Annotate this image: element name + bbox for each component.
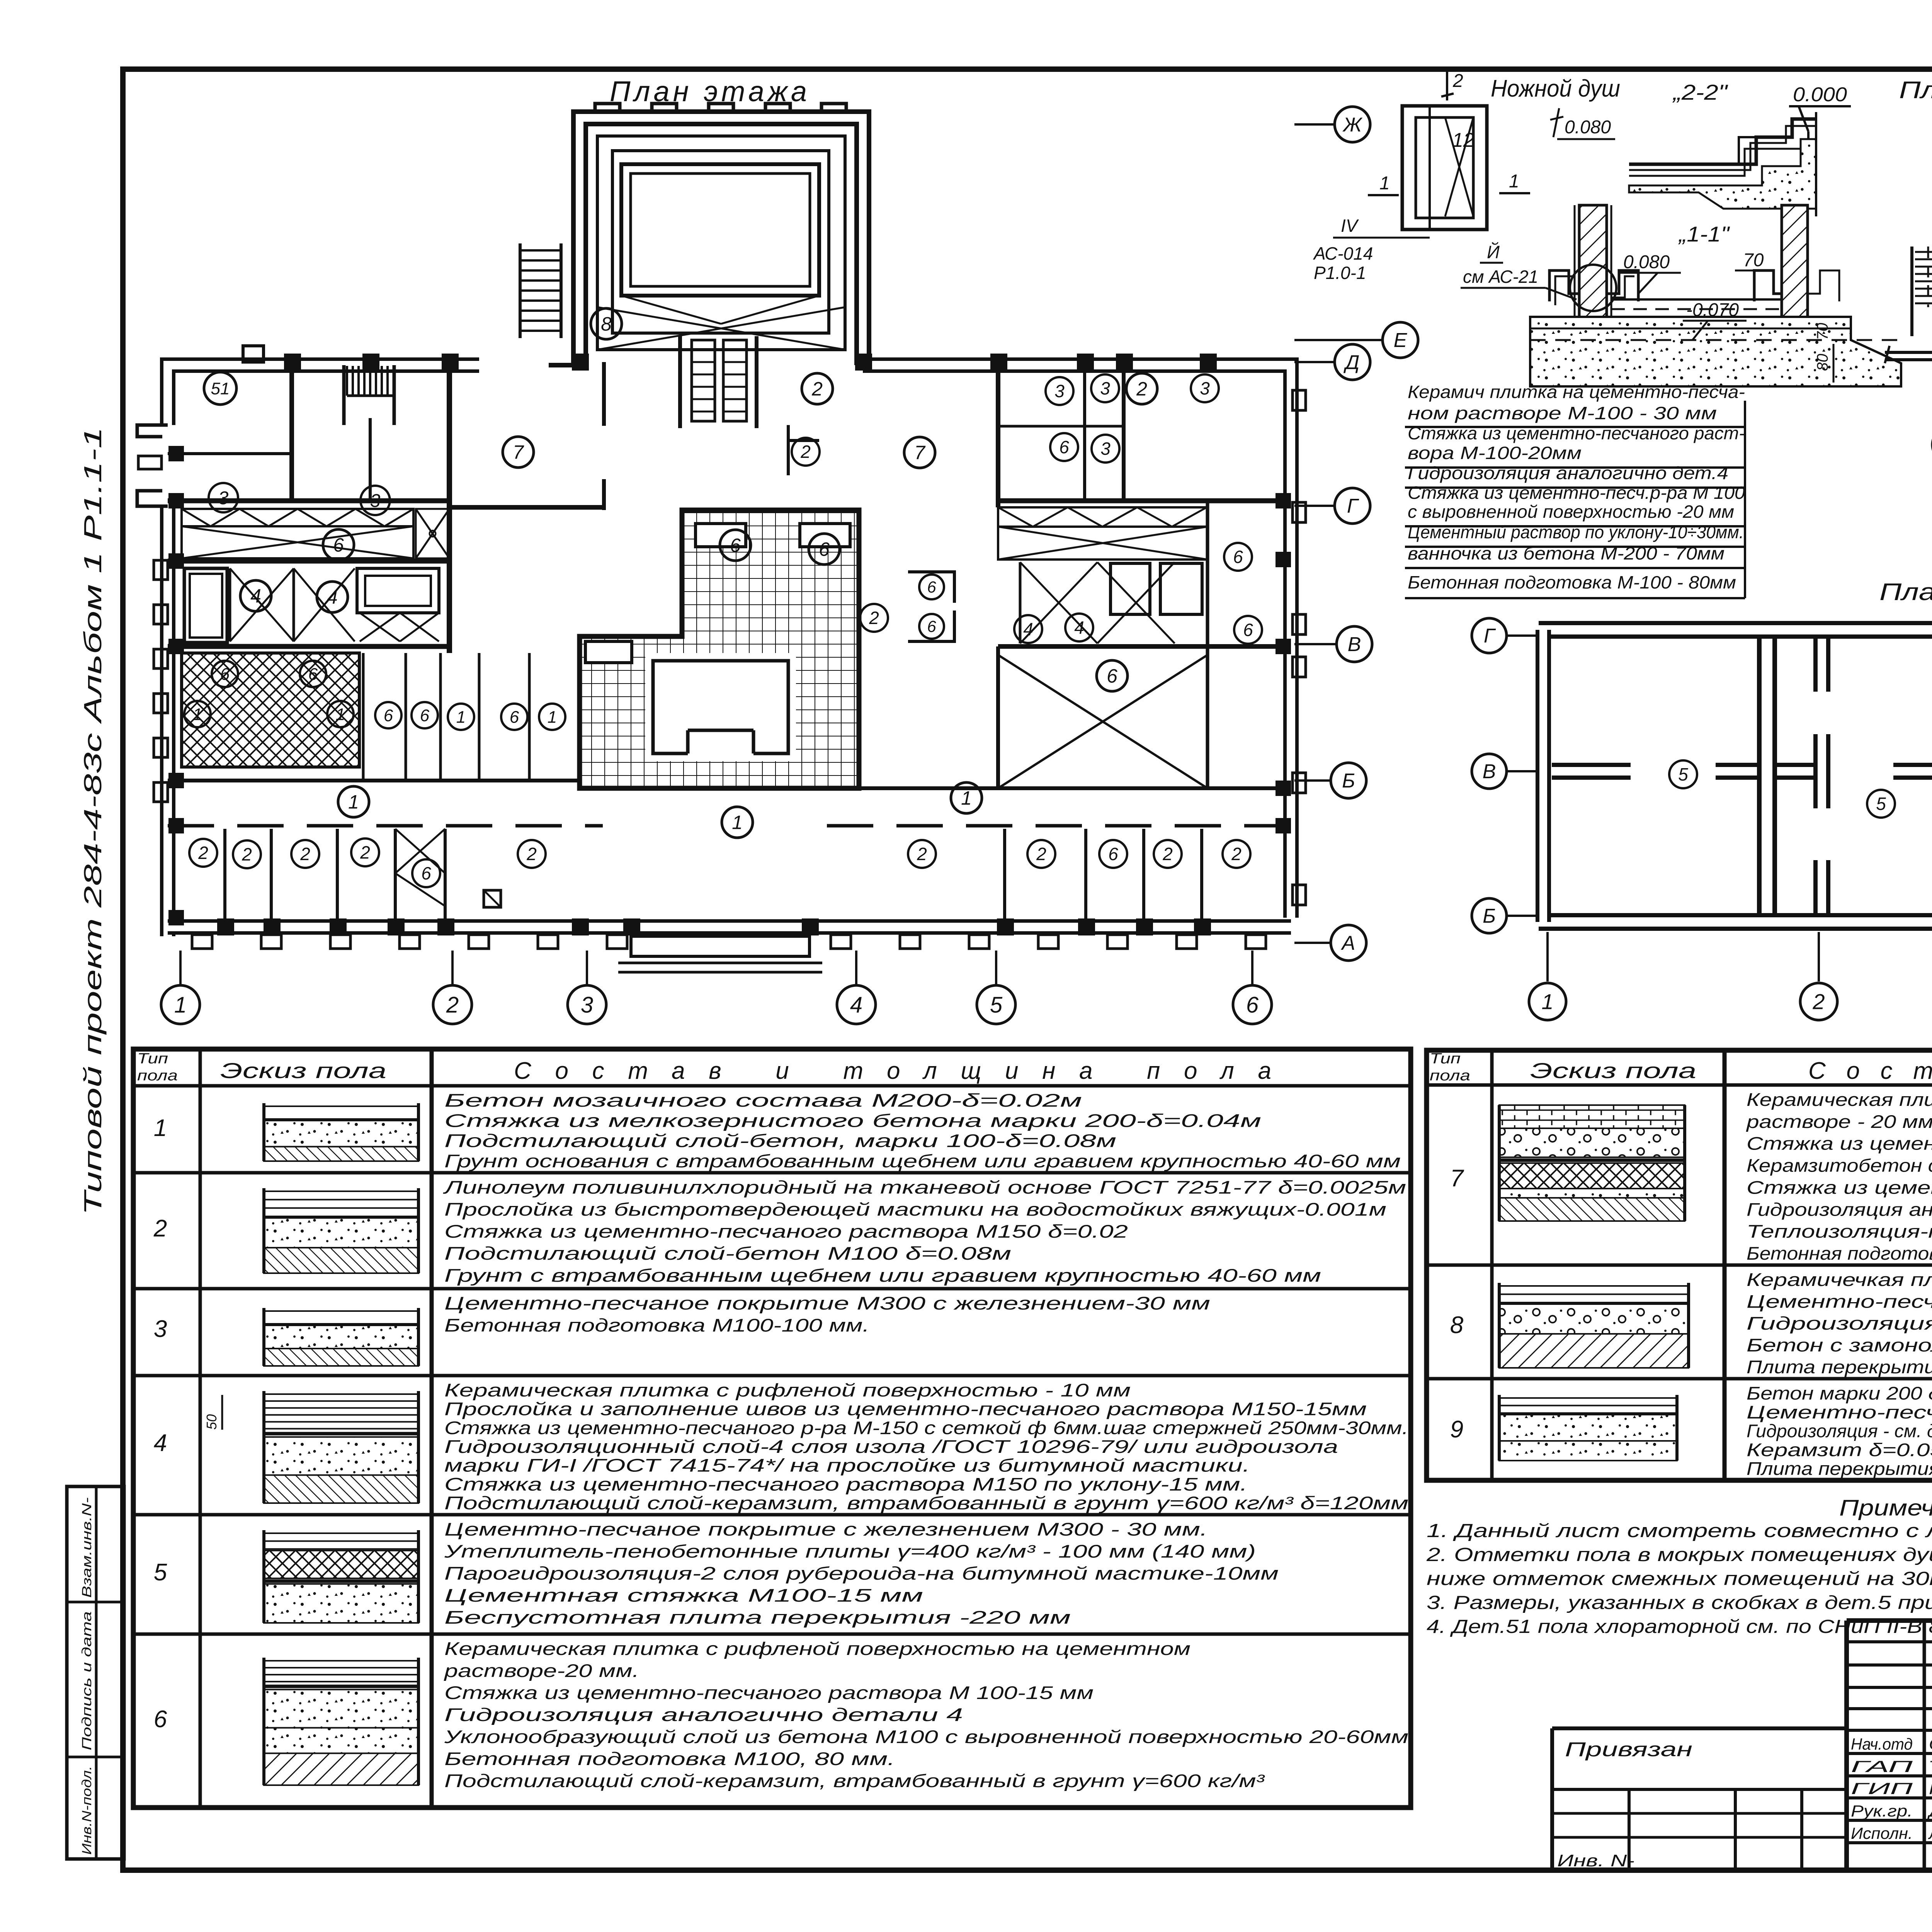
svg-text:3: 3 [1100, 439, 1111, 459]
svg-text:Цементный раствор по уклону-10: Цементный раствор по уклону-10÷30мм. [1408, 522, 1744, 542]
svg-text:IV: IV [1341, 216, 1359, 236]
svg-text:8: 8 [601, 313, 612, 335]
svg-text:Подпись и дата: Подпись и дата [80, 1611, 94, 1750]
svg-text:Керамзитобетон с трубами отопл: Керамзитобетон с трубами отопления - 70м… [1747, 1155, 1932, 1176]
svg-text:Привязан: Привязан [1565, 1738, 1692, 1761]
attic stubs [1813, 639, 1830, 692]
svg-text:Керамическая плитка с рифленой: Керамическая плитка с рифленой поверхнос… [444, 1638, 1190, 1659]
svg-text:6: 6 [220, 665, 230, 684]
svg-text:Инв. N-: Инв. N- [1557, 1851, 1634, 1870]
circle 8 [591, 308, 622, 339]
svg-text:Гидроизоляция аналогично детал: Гидроизоляция аналогично детали 4. [1747, 1199, 1932, 1219]
hatched column left [1579, 205, 1607, 356]
svg-text:Цементно-песчаное покрытие с ж: Цементно-песчаное покрытие с железнением… [444, 1519, 1207, 1539]
svg-text:3: 3 [581, 992, 593, 1017]
svg-text:1: 1 [348, 791, 359, 813]
svg-text:2: 2 [1136, 378, 1147, 400]
svg-text:Тип: Тип [1430, 1051, 1461, 1067]
section 2-2 drawing [1629, 119, 1816, 164]
svg-text:1: 1 [548, 707, 557, 726]
svg-text:Рук.гр.: Рук.гр. [1851, 1802, 1913, 1820]
svg-text:Керамичечкая плитка с рифленой: Керамичечкая плитка с рифленой поверхнос… [1747, 1269, 1932, 1290]
svg-text:1: 1 [456, 707, 466, 726]
svg-text:Стяжка из цементно-песчаного р: Стяжка из цементно-песчаного раствора М1… [1747, 1133, 1932, 1154]
svg-text:Утеплитель-пенобетонные плиты: Утеплитель-пенобетонные плиты γ=400 кг/м… [444, 1541, 1256, 1561]
svg-text:Прослойка из быстротвердеющей: Прослойка из быстротвердеющей мастики на… [444, 1199, 1386, 1219]
bottom pilasters [192, 935, 212, 949]
svg-text:Бетонная подготовка М-100 - 80: Бетонная подготовка М-100 - 80мм [1408, 572, 1736, 592]
svg-text:Подстилающий слой-керамзит, вт: Подстилающий слой-керамзит, втрамбованны… [444, 1493, 1408, 1513]
table 2 Состав и толщина пола (types 7-9) [1427, 1050, 1932, 1480]
svg-text:пола: пола [137, 1068, 178, 1084]
left porch protrusion [137, 425, 168, 437]
svg-text:ванночка из бетона М-200 - 70: ванночка из бетона М-200 - 70мм [1408, 543, 1725, 563]
closets 6/6 middle [908, 572, 954, 603]
svg-text:2: 2 [360, 842, 370, 862]
svg-text:Тахтаганов: Тахтаганов [1929, 1757, 1932, 1776]
external stair left of pool [519, 243, 522, 338]
svg-text:6: 6 [927, 617, 936, 636]
svg-text:1: 1 [193, 705, 202, 724]
svg-text:1: 1 [154, 1115, 167, 1141]
svg-text:2: 2 [811, 378, 823, 400]
svg-text:2: 2 [300, 844, 310, 864]
svg-text:2: 2 [917, 844, 927, 864]
signature grid horizontals [1847, 1640, 1932, 1643]
svg-text:6: 6 [1107, 665, 1117, 687]
svg-text:Дашкевич: Дашкевич [1927, 1802, 1932, 1820]
svg-text:Стяжка из цементно-песчаного р: Стяжка из цементно-песчаного раствора М1… [444, 1474, 1247, 1494]
svg-text:0.000: 0.000 [1793, 83, 1847, 106]
svg-text:2: 2 [1036, 844, 1046, 864]
svg-text:2. Отметки пола в мокрых помещ: 2. Отметки пола в мокрых помещениях душе… [1426, 1544, 1932, 1565]
svg-text:марки ГИ-I /ГОСТ 7415-74*/ на: марки ГИ-I /ГОСТ 7415-74*/ на прослойке … [444, 1455, 1250, 1476]
svg-text:Ж: Ж [1342, 114, 1363, 136]
svg-text:Подстилающий слой-бетон, марки: Подстилающий слой-бетон, марки 100-δ=0.0… [444, 1131, 1116, 1151]
svg-text:6: 6 [420, 706, 430, 725]
axis circles bottom of main plan [179, 951, 182, 985]
circles 51 3 3 left wing [204, 372, 236, 405]
svg-text:2: 2 [800, 442, 811, 462]
window detail [1402, 106, 1487, 230]
bottom right rooms [1003, 829, 1006, 927]
svg-text:см АС-21: см АС-21 [1463, 267, 1538, 287]
svg-text:3: 3 [1200, 378, 1210, 398]
svg-text:ниже отметок смежных помеще: ниже отметок смежных помещений на 30мм. [1427, 1568, 1932, 1589]
svg-text:Гидроизоляция 2 слоя (см.д4) δ: Гидроизоляция 2 слоя (см.д4) δ=0.04м γ=6… [1747, 1313, 1932, 1333]
internal walls left wing [289, 367, 294, 501]
svg-text:1: 1 [1379, 173, 1390, 194]
svg-text:3: 3 [218, 488, 229, 509]
svg-text:Гидроизоляционный слой-4 слоя: Гидроизоляционный слой-4 слоя изола /ГОС… [444, 1436, 1338, 1457]
svg-text:2: 2 [241, 844, 252, 864]
svg-text:12: 12 [1452, 129, 1475, 151]
corridor 7 walls [602, 362, 606, 426]
svg-text:70: 70 [1814, 323, 1831, 340]
svg-text:Стяжка из цементно-песчаного р: Стяжка из цементно-песчаного раствора М … [444, 1682, 1094, 1703]
svg-text:пола: пола [1430, 1068, 1470, 1084]
svg-text:Й: Й [1487, 241, 1500, 262]
svg-text:3: 3 [154, 1316, 167, 1342]
top middle rooms circles 2 2 [802, 373, 833, 404]
svg-text:1: 1 [1509, 171, 1519, 192]
svg-text:Стяжка из цементно-песчаного р: Стяжка из цементно-песчаного раст- [1408, 423, 1745, 443]
svg-text:4: 4 [250, 585, 261, 607]
svg-text:2: 2 [446, 992, 459, 1017]
svg-text:Гидроизоляция аналогично детал: Гидроизоляция аналогично детали 4 [444, 1704, 963, 1725]
circle 6 shower band [323, 529, 354, 560]
svg-text:ГИП: ГИП [1851, 1779, 1913, 1798]
svg-text:Цементно-песчаное покрытие М30: Цементно-песчаное покрытие М300 с железн… [444, 1293, 1210, 1313]
dashed partition over bottom rooms [168, 824, 603, 828]
svg-text:Стяжка из цементно-песчаного р: Стяжка из цементно-песчаного раствора М … [1747, 1177, 1932, 1197]
circle detail callout [1570, 265, 1616, 311]
svg-text:Беспустотная плита перекрытия: Беспустотная плита перекрытия -220 мм [444, 1607, 1071, 1628]
svg-text:5: 5 [990, 992, 1003, 1017]
svg-text:Типовой проект 284-4-83с Аль: Типовой проект 284-4-83с Альбом 1 Р1.1-1 [79, 427, 107, 1215]
stamp title block [1847, 1618, 1932, 1623]
svg-text:Бетон марки 200 δ=0.02м: Бетон марки 200 δ=0.02м [1747, 1383, 1932, 1403]
svg-text:Грунт с втрамбованным щебнем и: Грунт с втрамбованным щебнем или гравием… [444, 1265, 1321, 1286]
svg-text:4: 4 [1074, 617, 1084, 638]
svg-text:Состав и толщина пола: Состав и толщина пола [514, 1058, 1271, 1084]
pool floor slope diagonals [597, 307, 845, 350]
svg-text:Кулибаба: Кулибаба [1929, 1779, 1932, 1798]
shower band left (pattern boxes) [168, 559, 449, 564]
building outer walls [168, 365, 479, 425]
svg-text:5: 5 [1876, 794, 1886, 814]
svg-text:5: 5 [1678, 764, 1688, 784]
svg-text:3. Размеры, указанных в скобка: 3. Размеры, указанных в скобках в дет.5 … [1427, 1592, 1932, 1613]
svg-text:Стяжка из мелкозернистого бето: Стяжка из мелкозернистого бетона марки 2… [444, 1110, 1261, 1131]
table 1 Состав и толщина пола (types 1-6) [133, 1049, 1411, 1808]
svg-text:6: 6 [308, 665, 318, 684]
svg-text:51: 51 [211, 379, 230, 398]
svg-text:Цементно-песчаная стяжка δ=0.0: Цементно-песчаная стяжка δ=0.015м γ=1800… [1747, 1291, 1932, 1312]
big room 6 with X right [996, 646, 1000, 790]
svg-text:6: 6 [421, 863, 431, 883]
bottom outer wall [168, 919, 1291, 935]
room 6 with X bottom [412, 859, 440, 887]
stair symbol top corridor [346, 366, 348, 396]
svg-text:6: 6 [1243, 620, 1253, 640]
white stage inside hall [645, 653, 796, 761]
svg-text:Ножной душ: Ножной душ [1491, 75, 1620, 102]
svg-text:А: А [1341, 932, 1355, 954]
svg-text:Исполн.: Исполн. [1851, 1824, 1913, 1842]
left margin stamp boxes [67, 1486, 124, 1859]
svg-text:6: 6 [1246, 992, 1259, 1017]
svg-text:Гидроизоляция - см. дет.4: Гидроизоляция - см. дет.4 [1747, 1421, 1932, 1441]
svg-text:растворе - 20 мм.: растворе - 20 мм. [1746, 1111, 1932, 1132]
svg-text:6: 6 [819, 539, 830, 560]
pool basin [621, 164, 819, 296]
svg-text:6: 6 [1108, 844, 1118, 864]
svg-text:Плита перекрытия: Плита перекрытия [1747, 1357, 1932, 1377]
svg-text:Б: Б [1342, 770, 1355, 792]
svg-text:1. Данный лист смотреть совмес: 1. Данный лист смотреть совместно с лист… [1427, 1520, 1932, 1541]
svg-text:Цементная стяжка М100-15 мм: Цементная стяжка М100-15 мм [444, 1585, 923, 1605]
svg-text:5: 5 [154, 1559, 167, 1586]
svg-text:4: 4 [154, 1430, 167, 1456]
svg-text:„1-1": „1-1" [1678, 222, 1730, 246]
svg-text:Парогидроизоляция-2 слоя рубер: Парогидроизоляция-2 слоя рубероида-на би… [444, 1563, 1279, 1583]
svg-text:Прослойка и заполнение швов из: Прослойка и заполнение швов из цементно-… [444, 1399, 1367, 1419]
left wall pilasters [154, 560, 168, 580]
svg-text:Е: Е [1394, 329, 1408, 352]
svg-text:6: 6 [154, 1706, 167, 1733]
svg-text:Нач.отд: Нач.отд [1851, 1735, 1913, 1753]
svg-text:7: 7 [914, 442, 926, 464]
right shower band [998, 507, 1207, 527]
svg-text:Инв.N-подл.: Инв.N-подл. [80, 1766, 94, 1855]
svg-text:6: 6 [1059, 437, 1069, 457]
svg-text:Бетон с замоноличенными трубам: Бетон с замоноличенными трубами δ=0.09м.… [1747, 1335, 1932, 1355]
svg-text:6: 6 [730, 535, 741, 556]
attic vertical partitions [1757, 639, 1777, 913]
rooms 4/4 left [168, 644, 449, 649]
svg-text:7: 7 [1450, 1165, 1464, 1192]
axis letter circles right of main plan [1294, 123, 1335, 126]
svg-text:2: 2 [1452, 71, 1463, 91]
basement base line [1885, 351, 1932, 354]
svg-text:4: 4 [850, 992, 862, 1017]
svg-text:2: 2 [526, 844, 537, 864]
svg-text:Г: Г [1484, 625, 1496, 647]
bottom small rooms partitions [223, 829, 226, 927]
svg-text:В: В [1483, 760, 1496, 783]
svg-text:Р1.0-1: Р1.0-1 [1314, 263, 1366, 283]
svg-text:1: 1 [961, 787, 972, 809]
attic left axis circles [1507, 634, 1536, 637]
left part of stamp: Привязан [1552, 1726, 1847, 1730]
svg-text:80: 80 [1814, 354, 1831, 371]
svg-text:Взам.инв.N-: Взам.инв.N- [80, 1497, 94, 1598]
svg-text:растворе-20 мм.: растворе-20 мм. [443, 1660, 639, 1681]
right wing rooms 3 [998, 498, 1291, 503]
svg-text:Онищенко: Онищенко [1929, 1735, 1932, 1753]
basement stairs [1910, 247, 1913, 336]
svg-text:Грунт основания с втрамбованны: Грунт основания с втрамбованным щебнем и… [444, 1151, 1401, 1171]
svg-text:В: В [1348, 633, 1361, 656]
svg-text:70: 70 [1743, 250, 1764, 270]
svg-text:Д: Д [1344, 351, 1360, 374]
svg-text:1: 1 [732, 812, 743, 833]
svg-text:Теплоизоляция-плиты жесткие ми: Теплоизоляция-плиты жесткие минераловатн… [1747, 1221, 1932, 1242]
floor bands 1-1 [1530, 317, 1901, 386]
svg-text:Керамзит δ=0.05м γ=600 кг/м³: Керамзит δ=0.05м γ=600 кг/м³ [1747, 1439, 1932, 1460]
svg-text:Линолеум поливинилхлоридный на: Линолеум поливинилхлоридный на тканевой … [443, 1177, 1406, 1197]
svg-text:8: 8 [1450, 1312, 1464, 1338]
svg-text:ГАП: ГАП [1851, 1757, 1913, 1776]
svg-text:Стяжка из цементно-песчаного р: Стяжка из цементно-песчаного раствора М1… [444, 1221, 1128, 1242]
svg-text:Подстилающий слой-бетон М100 δ: Подстилающий слой-бетон М100 δ=0.08м [444, 1243, 1011, 1264]
room 6 left big [720, 530, 751, 561]
svg-text:Примечания:: Примечания: [1839, 1495, 1932, 1520]
svg-text:4: 4 [1023, 619, 1033, 639]
small cubicles row [362, 653, 365, 781]
corridor row 1 circles [338, 786, 369, 817]
pool hall block (top) [595, 104, 620, 116]
svg-text:Керамич плитка на цементно-пес: Керамич плитка на цементно-песча- [1408, 382, 1745, 402]
table 2 sketches [1499, 1105, 1685, 1128]
svg-text:1: 1 [1541, 990, 1553, 1014]
table 1 sketches [264, 1105, 418, 1107]
svg-text:вора М-100-20мм: вора М-100-20мм [1408, 443, 1582, 463]
svg-text:ном растворе М-100 - 30 мм: ном растворе М-100 - 30 мм [1408, 403, 1717, 423]
svg-text:6: 6 [384, 706, 393, 725]
svg-text:2: 2 [1231, 844, 1242, 864]
svg-text:Керамическая плитка с рифленой: Керамическая плитка с рифленой поверхнос… [1747, 1089, 1932, 1110]
svg-text:Тип: Тип [137, 1051, 168, 1067]
right pilasters [1293, 390, 1306, 410]
svg-text:Эскиз пола: Эскиз пола [1530, 1058, 1696, 1083]
svg-text:2: 2 [153, 1215, 167, 1242]
svg-text:Бетонная подготовка М100-100 м: Бетонная подготовка М100-100 мм. [444, 1315, 869, 1335]
svg-text:Плита перекрытия: Плита перекрытия [1747, 1458, 1932, 1479]
svg-text:Цементно-песчаная стяжка δ=0.0: Цементно-песчаная стяжка δ=0.02м М150 [1747, 1402, 1932, 1422]
svg-text:1: 1 [336, 705, 345, 724]
attic mid wall [1552, 763, 1631, 780]
svg-text:6: 6 [333, 534, 344, 556]
svg-text:с выровненной поверхностью -20: с выровненной поверхностью -20 мм [1408, 502, 1734, 522]
svg-text:7: 7 [513, 442, 524, 463]
svg-text:0.080: 0.080 [1623, 252, 1670, 272]
svg-text:2: 2 [1162, 844, 1173, 864]
attic outer walls [1539, 621, 1932, 639]
svg-text:Стяжка из цементно-песчаного р: Стяжка из цементно-песчаного р-ра М-150 … [444, 1417, 1408, 1438]
svg-text:„2-2": „2-2" [1672, 80, 1728, 104]
svg-text:-0.070: -0.070 [1686, 300, 1739, 320]
svg-text:2: 2 [869, 608, 879, 628]
svg-text:Бетонная подготовка М100, 80 м: Бетонная подготовка М100, 80 мм. [444, 1748, 895, 1769]
svg-text:АС-014: АС-014 [1313, 243, 1373, 264]
svg-text:3: 3 [1054, 381, 1065, 401]
svg-text:Керамическая плитка с рифленой: Керамическая плитка с рифленой поверхнос… [444, 1380, 1131, 1400]
diamond pattern block bottom-left [182, 653, 359, 767]
svg-text:Стяжка из цементно-песч.р-ра М: Стяжка из цементно-песч.р-ра М 100 [1408, 483, 1745, 503]
svg-text:0.080: 0.080 [1565, 117, 1611, 138]
svg-text:6: 6 [927, 578, 936, 596]
svg-text:Бетон мозаичного состава М200-: Бетон мозаичного состава М200-δ=0.02м [444, 1090, 1082, 1111]
svg-text:План чердачных помещений: План чердачных помещений [1879, 579, 1932, 605]
svg-text:Эскиз пола: Эскиз пола [220, 1058, 386, 1083]
svg-text:2: 2 [198, 843, 208, 863]
svg-text:Уклонообразующий слой из бетон: Уклонообразующий слой из бетона М100 с в… [444, 1726, 1408, 1747]
svg-text:50: 50 [204, 1414, 219, 1430]
hall top small rects [696, 524, 746, 547]
vestibule stairs between pool and building [678, 336, 682, 428]
svg-text:9: 9 [1450, 1416, 1463, 1443]
svg-text:6: 6 [1233, 547, 1243, 567]
svg-text:4: 4 [327, 587, 338, 608]
svg-text:Подстилающий слой-керамзит, вт: Подстилающий слой-керамзит, втрамбованны… [444, 1770, 1265, 1791]
right rooms 4/4 [1019, 562, 1022, 643]
svg-text:Гидроизоляция аналогично дет.4: Гидроизоляция аналогично дет.4 [1408, 463, 1728, 483]
entrance porch steps [631, 936, 810, 956]
svg-text:Ли: Ли [1928, 1824, 1932, 1842]
svg-text:3: 3 [1100, 378, 1110, 398]
svg-text:2: 2 [1812, 990, 1825, 1014]
attic bottom axis circles [1546, 932, 1549, 981]
svg-text:План подвала бассейна: План подвала бассейна [1899, 77, 1932, 104]
secondary stair walls [342, 365, 346, 425]
wall junction piers [284, 354, 301, 371]
svg-text:Б: Б [1483, 905, 1496, 927]
curb profiles [1549, 270, 1579, 301]
svg-text:Г: Г [1347, 495, 1359, 517]
svg-text:6: 6 [510, 707, 519, 726]
svg-text:1: 1 [174, 992, 187, 1017]
signature grid verticals [1923, 1621, 1926, 1870]
svg-text:Состав и толщина пола: Состав и толщина пола [1808, 1058, 1932, 1084]
svg-text:Бетонная подготовка М100-100 м: Бетонная подготовка М100-100 мм. [1747, 1243, 1932, 1264]
central tiled hall [580, 510, 859, 788]
